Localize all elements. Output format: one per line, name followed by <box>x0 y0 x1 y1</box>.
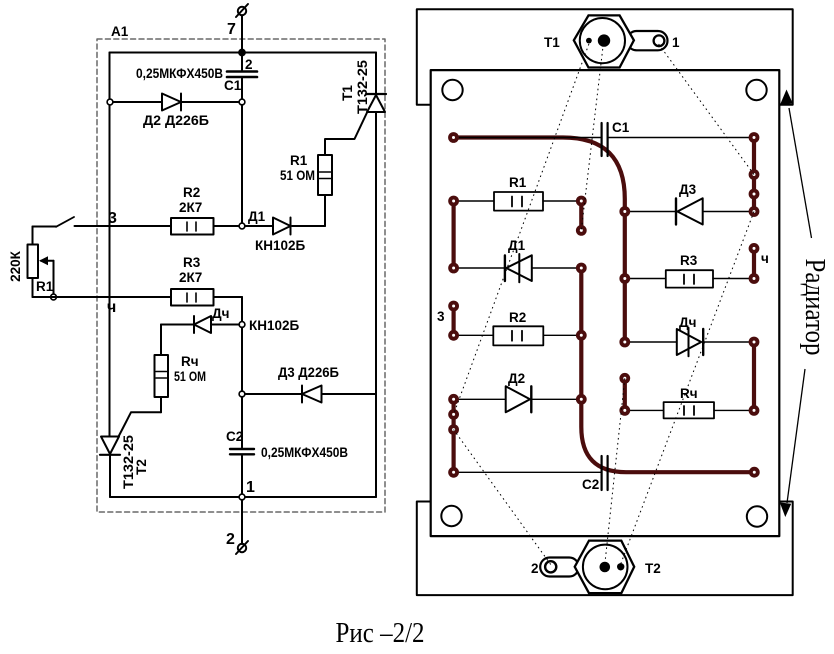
pcb resistor R2 <box>454 326 582 345</box>
dotted leader T1 tab to pad Fa <box>659 44 754 175</box>
pad Ra <box>619 373 630 384</box>
pad R1L <box>448 196 459 207</box>
pcb wire C1 left <box>454 137 602 139</box>
dotted leader T2 tab to pad Lb <box>454 430 551 565</box>
svg-text:7: 7 <box>227 21 236 38</box>
svg-text:Д3 Д226Б: Д3 Д226Б <box>278 365 339 380</box>
pads <box>448 132 760 478</box>
pad 3a <box>448 301 459 312</box>
svg-text:2: 2 <box>531 561 539 576</box>
pad R1R <box>576 196 587 207</box>
svg-text:Дч: Дч <box>212 306 229 321</box>
pad R4L <box>619 405 630 416</box>
radiator leader bottom <box>787 369 805 503</box>
node D1 <box>239 223 245 229</box>
svg-text:2К7: 2К7 <box>179 270 202 285</box>
trace link R1R pair <box>579 201 583 230</box>
diode D1 <box>245 218 291 235</box>
wire 4 row <box>33 296 172 298</box>
mount hole bottom-left <box>441 506 461 526</box>
diode D2 <box>162 94 181 111</box>
pad Fa <box>749 169 760 180</box>
resistor R2 <box>171 218 239 235</box>
svg-text:R2: R2 <box>509 310 526 325</box>
wire: right rail upper <box>375 53 377 95</box>
pcb diode D1 <box>454 254 582 282</box>
wire C1 node down to D1 node <box>241 105 243 223</box>
pcb resistor R3 <box>625 270 754 287</box>
trace link D2L-C2L <box>452 399 456 472</box>
node open left <box>107 99 113 105</box>
svg-text:2К7: 2К7 <box>179 200 202 215</box>
thyristor T1 <box>366 94 386 112</box>
node junction top <box>238 49 246 57</box>
svg-text:С1: С1 <box>224 78 242 93</box>
svg-text:Rч: Rч <box>181 354 199 369</box>
svg-text:ч: ч <box>107 299 116 316</box>
potentiometer 220K R1 <box>28 227 57 298</box>
pad C1R <box>749 132 760 143</box>
svg-text:0,25МКФХ450В: 0,25МКФХ450В <box>261 445 348 460</box>
svg-text:51 ОМ: 51 ОМ <box>280 168 315 183</box>
svg-text:R1: R1 <box>509 175 527 190</box>
thyristor T2 <box>119 412 161 436</box>
pad D1R <box>576 263 587 274</box>
svg-text:R3: R3 <box>680 253 698 268</box>
pcb diode D3 <box>625 198 754 224</box>
radiator arrow top <box>780 90 793 106</box>
wire: right rail lower <box>375 112 377 497</box>
svg-text:Дч: Дч <box>679 315 696 330</box>
svg-text:R1: R1 <box>290 153 308 168</box>
pad Fb <box>749 189 760 200</box>
svg-text:Т2: Т2 <box>645 561 661 576</box>
svg-text:С1: С1 <box>612 120 630 135</box>
svg-text:Т1: Т1 <box>340 85 355 101</box>
diode D4 <box>161 316 239 333</box>
pad Mb <box>576 225 587 236</box>
trace C2 bottom (thick) <box>581 268 754 472</box>
svg-text:Д3: Д3 <box>679 182 697 197</box>
diode D2 row wire <box>113 101 240 103</box>
capacitor C2 <box>230 327 254 497</box>
svg-text:0,25МКФХ450В: 0,25МКФХ450В <box>136 66 223 81</box>
svg-text:R2: R2 <box>183 185 200 200</box>
svg-text:А1: А1 <box>111 24 129 39</box>
trace link R1L-D1L <box>452 201 456 268</box>
pad C2R <box>749 467 760 478</box>
svg-text:3: 3 <box>437 309 445 324</box>
svg-text:КН102Б: КН102Б <box>249 318 300 333</box>
pad D2L <box>448 394 459 405</box>
svg-text:Т132-25: Т132-25 <box>355 59 370 114</box>
node open right <box>239 99 245 105</box>
svg-text:Д1: Д1 <box>248 209 266 224</box>
svg-text:Т1: Т1 <box>544 35 560 50</box>
pad D3L <box>619 206 630 217</box>
svg-text:ч: ч <box>761 251 769 266</box>
svg-text:Д2 Д226Б: Д2 Д226Б <box>143 113 209 128</box>
pad C1L <box>448 132 459 143</box>
pad La <box>448 409 459 420</box>
mount hole top-right <box>746 80 766 100</box>
A1 module dashed border <box>97 39 385 512</box>
trace link 4 pair <box>752 248 756 278</box>
resistor R3 <box>171 289 242 322</box>
svg-text:Rч: Rч <box>680 386 698 401</box>
resistor R1 <box>292 155 332 226</box>
pcb resistor R4 <box>625 402 754 418</box>
svg-text:R1: R1 <box>36 279 54 294</box>
dotted leader T1 big dot to pad Mb <box>581 44 603 230</box>
pcb diode D2 <box>454 386 582 412</box>
trace link R4L pair <box>623 378 627 410</box>
pad R4R <box>749 405 760 416</box>
terminal 7 <box>236 4 248 53</box>
dotted leader pad Ra to T2 big dot <box>605 378 625 564</box>
svg-text:Радиатор: Радиатор <box>799 259 831 356</box>
pad D4R <box>749 337 760 348</box>
svg-text:С2: С2 <box>582 477 599 492</box>
svg-text:Т2: Т2 <box>134 459 149 475</box>
heatsink bottom block <box>417 502 793 596</box>
svg-text:3: 3 <box>108 210 117 227</box>
radiator arrow bottom <box>780 503 791 518</box>
node 1 <box>239 494 245 500</box>
wire: left rail <box>109 53 111 438</box>
node D4 <box>239 322 245 328</box>
switch <box>56 217 74 227</box>
capacitor C1 <box>227 53 257 103</box>
pad R3L <box>619 273 630 284</box>
wire: top bus <box>110 52 377 54</box>
svg-text:Рис –2/2: Рис –2/2 <box>336 617 425 649</box>
pcb wire C2 left <box>454 471 601 473</box>
pad 4a <box>749 243 760 254</box>
pad D3R <box>749 206 760 217</box>
pad R2R <box>576 330 587 341</box>
svg-text:1: 1 <box>672 35 680 50</box>
pad R3R <box>749 273 760 284</box>
wire bottom bus <box>109 455 111 497</box>
T1 gate wire <box>325 112 368 156</box>
svg-text:2: 2 <box>226 531 235 548</box>
pcb resistor R1 <box>454 192 582 211</box>
diode D3 <box>245 386 376 403</box>
pad D4L <box>619 337 630 348</box>
trace link D4R-R4R <box>752 342 756 410</box>
svg-text:1: 1 <box>246 479 255 496</box>
pad Lb <box>448 424 459 435</box>
pcb diode D4 <box>625 328 754 357</box>
radiator leader top <box>789 108 812 238</box>
pad C2L <box>448 467 459 478</box>
trace link C1R-D3R <box>752 138 756 212</box>
dotted leader pad D3R to T2 small dot <box>621 212 754 565</box>
pcb capacitor C2 plates <box>600 456 602 490</box>
resistor R4 <box>155 325 169 413</box>
wire 3 row <box>75 225 172 227</box>
svg-text:С2: С2 <box>226 429 243 444</box>
pcb capacitor C1 plates <box>600 123 602 156</box>
transistor T2 <box>540 541 634 594</box>
mount hole bottom-right <box>747 506 767 526</box>
pad R2L <box>448 330 459 341</box>
svg-text:220К: 220К <box>8 250 23 282</box>
svg-text:51 ОМ: 51 ОМ <box>174 369 206 384</box>
transistor T1 <box>574 15 668 67</box>
pcb wire C1 right <box>608 137 754 139</box>
terminal 2 <box>236 500 248 554</box>
svg-text:2: 2 <box>245 57 253 72</box>
dotted leader T1 small dot to pad La <box>454 44 589 414</box>
heatsink top block <box>417 9 793 104</box>
pad D1L <box>448 263 459 274</box>
svg-text:Д1: Д1 <box>508 238 526 253</box>
trace C1 top (thick) <box>454 138 625 343</box>
svg-text:R3: R3 <box>183 255 201 270</box>
svg-text:КН102Б: КН102Б <box>255 238 306 253</box>
mount hole top-left <box>442 80 462 100</box>
pad D2R <box>576 394 587 405</box>
PCB board <box>431 70 780 536</box>
svg-text:Д2: Д2 <box>508 371 525 386</box>
trace link 3-R2L <box>452 306 456 335</box>
node D3 <box>239 391 245 397</box>
